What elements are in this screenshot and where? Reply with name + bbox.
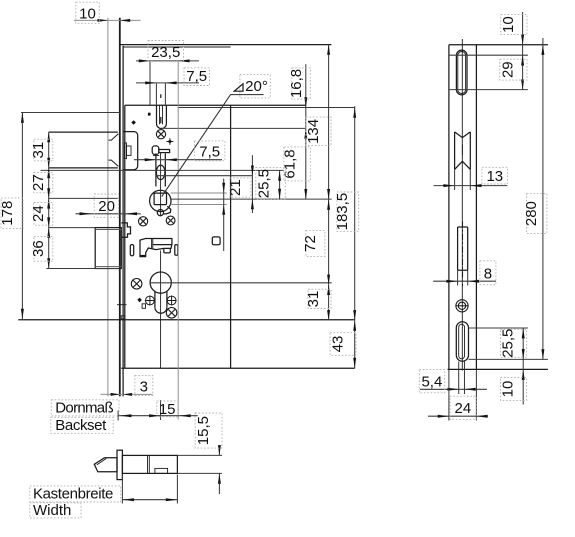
- svg-text:13: 13: [486, 168, 503, 185]
- deadbolt head: [95, 228, 121, 269]
- bottom view case: [122, 455, 177, 473]
- middle slot: [458, 227, 468, 270]
- dim 5,4 arrows: [448, 388, 476, 391]
- fixing square hole right: [212, 237, 220, 245]
- svg-text:15: 15: [159, 401, 176, 418]
- dim 178 arrows: [21, 113, 24, 319]
- top oblong inner: [458, 52, 466, 94]
- dim 10 bottom arrow: [522, 370, 525, 380]
- dim 24 ext right: [475, 369, 477, 420]
- dim 280 box: [527, 194, 547, 234]
- deadbolt top ext: [49, 227, 96, 229]
- follower cam lobe: [163, 206, 171, 214]
- lock case top edge: [125, 104, 306, 106]
- dim 15 tick left: [117, 411, 119, 421]
- dim 72 arrows: [327, 200, 330, 285]
- svg-text:10: 10: [500, 16, 517, 33]
- dim 25,5 box: [256, 168, 285, 200]
- lever left bar: [130, 245, 133, 256]
- svg-text:20°: 20°: [245, 78, 268, 95]
- svg-text:Kastenbreite: Kastenbreite: [33, 486, 113, 503]
- ref line y175.7: [156, 175, 253, 177]
- dim 280 arrows: [541, 45, 544, 360]
- dim 31 left box: [34, 139, 53, 161]
- svg-text:29: 29: [499, 61, 516, 78]
- dim 7,5 top arrows: [145, 81, 176, 84]
- dim 10 bottom box: [501, 377, 527, 400]
- bottom view small rect: [155, 468, 168, 473]
- crosshair right: [167, 296, 177, 306]
- dim 21 box: [230, 178, 251, 197]
- pin detail head: [152, 146, 159, 155]
- plate left edge: [448, 45, 450, 370]
- latch plunger neck: [127, 146, 132, 155]
- case left edge notch: [121, 316, 125, 319]
- lever groove: [152, 239, 153, 249]
- slot bottom reference line: [162, 127, 306, 129]
- lever right bar: [175, 245, 178, 256]
- bottom view bottom ext right: [177, 472, 222, 474]
- lever body: [140, 239, 172, 257]
- centering cross: [167, 138, 174, 145]
- cylinder bottom arc: [155, 307, 167, 313]
- deadbolt inner bottom line: [95, 266, 121, 268]
- plate right edge: [475, 45, 477, 370]
- dim 31 right box: [308, 289, 331, 308]
- dim 27 box: [34, 172, 53, 192]
- dim 7,5 top ext left: [155, 83, 157, 105]
- plate axis: [461, 39, 463, 371]
- dim 25,5 right box: [501, 329, 527, 357]
- dim 7,5 top box: [184, 68, 210, 86]
- deadbolt tail steps: [121, 223, 130, 237]
- dim 16,8 arrows: [304, 97, 307, 139]
- dim 23,5 line: [136, 60, 199, 62]
- dim 25,5 right arrows: [522, 328, 525, 359]
- U-slot center tick lower: [160, 117, 162, 123]
- dim 13 line: [434, 185, 508, 187]
- svg-text:72: 72: [302, 235, 319, 252]
- diamond dot: [131, 120, 136, 124]
- dim 43 arrows: [353, 321, 356, 369]
- dim 24 box: [34, 202, 53, 225]
- dim 15,5 arrows: [218, 445, 221, 484]
- latch window right side: [469, 132, 471, 170]
- reference line x178: [177, 61, 179, 420]
- dim 25,5 line: [279, 170, 281, 199]
- dim 20 box: [94, 194, 118, 217]
- lock case right edge: [230, 105, 232, 368]
- dim 25,5 arrows: [278, 171, 281, 199]
- svg-text:16,8: 16,8: [288, 69, 305, 98]
- latch window bottom chevron: [455, 161, 471, 169]
- deadbolt inner top line: [95, 229, 121, 231]
- U-slot center tick upper: [160, 94, 162, 98]
- lock case top second line: [178, 107, 355, 109]
- screw upper-left: [139, 217, 148, 226]
- dim 7,5 top ext right: [164, 83, 166, 105]
- angle symbol: [234, 84, 243, 91]
- svg-text:31: 31: [305, 291, 322, 308]
- svg-text:27: 27: [30, 174, 47, 191]
- bottom view latch wedge: [94, 458, 117, 472]
- dim 23,5 ext left: [149, 61, 151, 105]
- follower circle: [150, 190, 171, 211]
- svg-text:3: 3: [140, 378, 148, 395]
- top oblong outer: [456, 50, 467, 95]
- screw mid-left: [131, 279, 142, 290]
- lock case inner bottom line: [18, 319, 354, 321]
- dim 24 ext left: [448, 369, 450, 420]
- dim 5,4 box: [419, 369, 444, 392]
- small square mark: [148, 113, 151, 116]
- dim 8 line: [433, 280, 496, 282]
- dim 20 arrows: [80, 212, 138, 215]
- dim 20 line: [76, 213, 141, 215]
- dim 10 top right arrows: [521, 35, 524, 66]
- svg-text:183,5: 183,5: [334, 193, 351, 231]
- dim 15,5 box: [195, 413, 222, 448]
- svg-text:61,8: 61,8: [282, 149, 299, 178]
- dim 43 line: [354, 320, 356, 368]
- pin detail foot: [153, 155, 159, 157]
- dim 16,8/61,8 line: [305, 64, 307, 199]
- dim 16,8 box: [292, 68, 311, 99]
- dim 15 ext axis: [160, 400, 162, 420]
- latch top line: [49, 131, 118, 133]
- dim 5,4 ext left: [458, 362, 460, 395]
- svg-text:24: 24: [30, 205, 47, 222]
- latch window left side: [454, 132, 456, 170]
- dim 134 arrows: [327, 45, 330, 200]
- dim 134 line: [328, 45, 330, 200]
- crosshair left: [145, 296, 155, 306]
- ref line y193 gray: [171, 192, 227, 194]
- dim 72 line: [328, 199, 330, 285]
- svg-text:20: 20: [98, 198, 115, 215]
- faceplate inner edge: [122, 46, 124, 397]
- svg-text:23,5: 23,5: [151, 44, 180, 61]
- svg-text:Dornmaß: Dornmaß: [55, 400, 113, 417]
- lock case bottom edge: [121, 367, 355, 369]
- dim 178 line: [21, 113, 23, 319]
- axis line lower: [160, 251, 162, 369]
- dim 61,8 box: [284, 147, 310, 181]
- svg-text:178: 178: [0, 201, 16, 226]
- middle slot center dashline: [462, 222, 464, 287]
- lower oblong outer: [456, 322, 468, 361]
- dim 36 box: [34, 236, 53, 261]
- plate top edge with extension: [449, 44, 548, 46]
- label Kastenbreite box: [30, 486, 121, 502]
- dim 7,5 mid box: [195, 141, 225, 161]
- dim 43 box: [330, 333, 356, 356]
- Kastenbreite ext left: [121, 475, 123, 504]
- latch body box: [123, 132, 137, 170]
- screw lower-right: [166, 308, 177, 319]
- svg-text:21: 21: [227, 179, 244, 196]
- svg-text:36: 36: [30, 240, 47, 257]
- dim 23,5 arrows: [139, 59, 190, 62]
- lower oblong top ref: [469, 327, 528, 329]
- dim 29 arrow: [521, 79, 524, 89]
- dim 7,5 top line: [136, 82, 199, 84]
- Kastenbreite dim line: [122, 499, 177, 501]
- svg-text:25,5: 25,5: [256, 169, 273, 198]
- dim 8 box: [480, 261, 496, 285]
- dim 15,5 line lower: [218, 474, 220, 494]
- dim 13 arrows: [443, 184, 481, 187]
- faceplate front edge: [107, 18, 109, 397]
- backplate top edge: [120, 44, 332, 46]
- dim 8 arrows: [446, 280, 479, 283]
- lock case left edge: [124, 105, 126, 368]
- follower small circle: [157, 210, 163, 216]
- dim 7,5 mid line: [134, 159, 222, 161]
- dim 10 top right box: [501, 15, 527, 35]
- latch window top V: [455, 132, 471, 138]
- cylinder shank right: [166, 291, 168, 307]
- dim 24 arrows: [438, 415, 488, 418]
- tiny square hole: [142, 304, 145, 309]
- ref line y112.5: [21, 112, 120, 114]
- svg-text:5,4: 5,4: [421, 374, 442, 391]
- dim 31 right line: [328, 285, 330, 321]
- dim 15 arrows: [120, 414, 191, 417]
- dim 61,8 arrow: [304, 189, 307, 199]
- dim 23,5 box: [148, 41, 184, 62]
- latch window center dash: [461, 145, 463, 156]
- U-slot inner right line: [162, 105, 164, 124]
- follower slot left side: [155, 154, 157, 187]
- small diamond lower: [137, 298, 142, 303]
- dim 31 right arrows: [327, 285, 330, 321]
- ref line y170.4: [41, 169, 284, 171]
- dim 3 box: [135, 375, 153, 395]
- svg-text:10: 10: [79, 5, 96, 22]
- dim 183,5 box: [337, 192, 359, 231]
- lower oblong bottom ref: [469, 358, 548, 360]
- label Backset box: [51, 417, 113, 433]
- dim 178 box: [1, 198, 23, 229]
- oblong top ref line: [449, 54, 528, 56]
- dim 10 bottom line: [522, 359, 524, 404]
- Kastenbreite arrows: [122, 498, 177, 501]
- follower square hole: [154, 193, 166, 205]
- dim 7,5 mid arrows: [145, 158, 177, 161]
- dim 3 line: [101, 393, 153, 395]
- dim 24 line: [428, 415, 488, 417]
- cylinder shank left: [154, 291, 156, 307]
- dim 5,4 ext right: [464, 362, 466, 395]
- svg-text:31: 31: [30, 142, 47, 159]
- left chain arrows: [47, 132, 50, 268]
- dim 29 box: [500, 59, 527, 80]
- ref line y198.4 left: [49, 197, 118, 199]
- dim 24 box: [450, 396, 476, 419]
- lever foot shade: [140, 255, 146, 257]
- small dim arrows: [222, 183, 225, 215]
- dim 21 arrows: [251, 166, 254, 210]
- cylinder axis line y282.8: [150, 282, 332, 284]
- screw right view: [455, 300, 468, 312]
- dim 3 arrows: [111, 393, 133, 396]
- dim 134 box: [306, 117, 331, 146]
- dim 5,4 line: [420, 388, 487, 390]
- screw upper-right: [166, 216, 175, 225]
- latch bottom line: [49, 167, 118, 169]
- U-slot left side: [156, 105, 158, 123]
- svg-text:24: 24: [455, 400, 472, 417]
- dim 10 top line: [74, 19, 141, 21]
- pin detail shaft: [159, 150, 170, 153]
- U-slot bottom arc: [157, 124, 167, 129]
- follower axis line y199.1: [171, 198, 332, 200]
- cylinder circle: [150, 272, 171, 293]
- svg-text:Backset: Backset: [55, 417, 107, 434]
- dim 183,5 line: [354, 106, 356, 320]
- dim 13 ext right: [469, 169, 471, 190]
- lower oblong inner: [459, 324, 465, 359]
- dim 15,5 line upper: [218, 448, 220, 456]
- dim 10 top arrows: [98, 19, 131, 22]
- U-slot right side: [165, 105, 167, 123]
- Kastenbreite ext right: [176, 475, 178, 504]
- oblong bottom ref line: [449, 89, 528, 91]
- bottom view divider lines: [148, 455, 150, 473]
- axis line upper: [160, 153, 162, 216]
- dim 15 box: [157, 401, 178, 417]
- deadbolt bottom ext: [46, 268, 119, 270]
- backplate inner top edge: [123, 46, 230, 48]
- svg-text:25,5: 25,5: [500, 329, 517, 358]
- dim 10 top right line: [522, 12, 524, 90]
- label Dornmass box: [51, 400, 119, 416]
- bottom view top ext right: [177, 454, 222, 456]
- dim 72 box: [306, 231, 325, 257]
- follower oval: [156, 165, 165, 179]
- dim 280 line: [542, 38, 544, 359]
- dim 183,5 arrows: [353, 108, 356, 321]
- dim 15 line: [118, 415, 198, 417]
- svg-text:280: 280: [523, 201, 540, 226]
- dim 21 line: [251, 155, 253, 213]
- latch bevel mark upper: [109, 134, 119, 140]
- latch bevel mark lower: [109, 160, 119, 166]
- dim 20deg box: [240, 75, 270, 98]
- ref line y204.5 gray: [171, 204, 227, 206]
- svg-text:8: 8: [484, 265, 492, 282]
- svg-text:43: 43: [329, 336, 346, 353]
- dim 13 ext left: [454, 169, 456, 190]
- left chain dim line: [48, 132, 50, 268]
- dim 8 ext left: [457, 270, 459, 285]
- U-slot inner left line: [159, 105, 161, 124]
- leader 20deg: [162, 95, 264, 197]
- svg-text:7,5: 7,5: [186, 68, 207, 85]
- bottom view faceplate section: [117, 450, 122, 479]
- screw top-center: [156, 130, 165, 139]
- latch plunger stem: [125, 143, 127, 159]
- faceplate joint tick: [117, 304, 127, 306]
- dim 13 box: [482, 167, 508, 184]
- bottom view latch bevel line: [97, 459, 106, 465]
- dim 25,5 right line: [522, 328, 524, 359]
- follower slot right side: [164, 154, 166, 187]
- faceplate back edge: [119, 18, 121, 397]
- small dim line x223.7: [223, 179, 225, 252]
- dim 8 ext right: [467, 270, 469, 285]
- svg-text:7,5: 7,5: [199, 144, 220, 161]
- dim 10 top box: [76, 2, 100, 23]
- svg-text:134: 134: [305, 119, 322, 144]
- label Width box: [30, 503, 81, 518]
- plate bottom line long: [448, 368, 548, 370]
- svg-text:15,5: 15,5: [195, 416, 212, 445]
- svg-text:Width: Width: [33, 502, 71, 519]
- svg-text:10: 10: [500, 381, 517, 398]
